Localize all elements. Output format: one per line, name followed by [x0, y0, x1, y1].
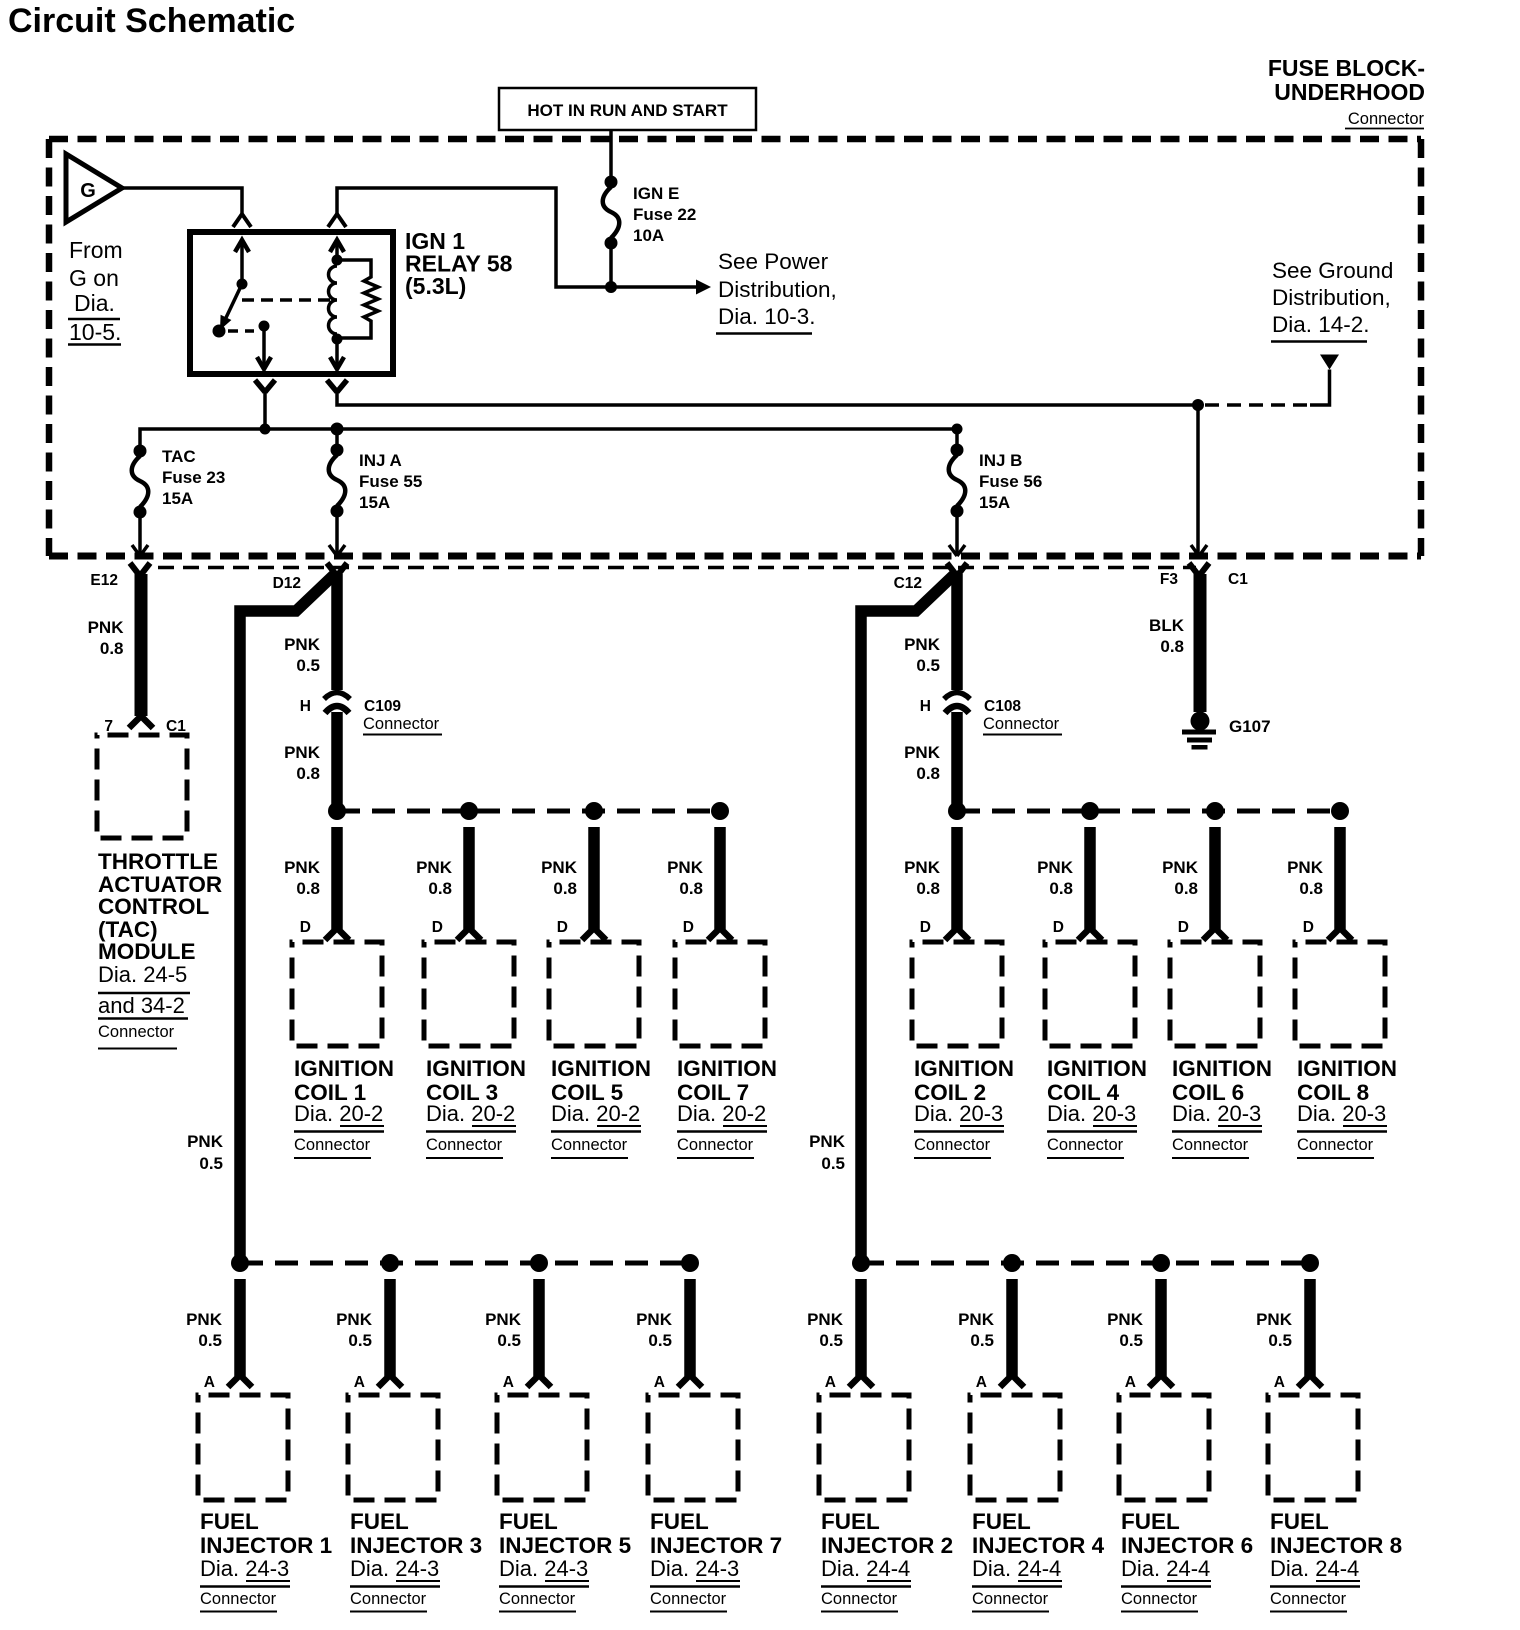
svg-text:PNK: PNK: [284, 635, 321, 654]
svg-text:A: A: [204, 1374, 215, 1391]
svg-text:PNK: PNK: [904, 635, 941, 654]
svg-text:Distribution,: Distribution,: [718, 277, 837, 302]
svg-text:PNK: PNK: [485, 1310, 522, 1329]
svg-text:15A: 15A: [979, 493, 1010, 512]
svg-text:PNK: PNK: [284, 858, 321, 877]
svg-text:Dia. 20-3: Dia. 20-3: [914, 1101, 1003, 1126]
svg-text:0.8: 0.8: [1160, 637, 1184, 656]
svg-text:D: D: [1053, 919, 1064, 936]
svg-text:Dia. 20-3: Dia. 20-3: [1172, 1101, 1261, 1126]
svg-text:IGNITION: IGNITION: [294, 1056, 394, 1081]
svg-text:Distribution,: Distribution,: [1272, 285, 1391, 310]
svg-text:Connector: Connector: [650, 1590, 727, 1608]
svg-text:10-5.: 10-5.: [69, 319, 121, 345]
svg-text:Dia.: Dia.: [74, 290, 115, 316]
svg-text:See Ground: See Ground: [1272, 258, 1393, 283]
svg-text:PNK: PNK: [1162, 858, 1199, 877]
svg-text:0.8: 0.8: [916, 764, 940, 783]
svg-text:INJECTOR 6: INJECTOR 6: [1121, 1533, 1253, 1558]
svg-text:D: D: [557, 919, 568, 936]
svg-text:Connector: Connector: [972, 1590, 1049, 1608]
svg-text:FUEL: FUEL: [499, 1509, 558, 1534]
svg-text:0.5: 0.5: [1268, 1331, 1292, 1350]
svg-text:Dia. 20-2: Dia. 20-2: [294, 1101, 383, 1126]
svg-text:0.8: 0.8: [100, 639, 124, 658]
svg-text:Connector: Connector: [1297, 1136, 1374, 1154]
svg-text:C108: C108: [984, 698, 1021, 715]
svg-text:0.5: 0.5: [296, 656, 320, 675]
svg-text:PNK: PNK: [1107, 1310, 1144, 1329]
svg-text:Dia. 24-3: Dia. 24-3: [499, 1556, 588, 1581]
svg-text:Connector: Connector: [821, 1590, 898, 1608]
svg-text:Connector: Connector: [499, 1590, 576, 1608]
svg-text:and 34-2: and 34-2: [98, 993, 185, 1018]
svg-text:D: D: [1303, 919, 1314, 936]
svg-text:IGNITION: IGNITION: [1172, 1056, 1272, 1081]
svg-text:PNK: PNK: [958, 1310, 995, 1329]
svg-text:INJECTOR 8: INJECTOR 8: [1270, 1533, 1402, 1558]
svg-text:FUEL: FUEL: [200, 1509, 259, 1534]
svg-text:FUEL: FUEL: [1121, 1509, 1180, 1534]
svg-text:Dia. 24-3: Dia. 24-3: [200, 1556, 289, 1581]
svg-text:PNK: PNK: [1037, 858, 1074, 877]
svg-text:PNK: PNK: [541, 858, 578, 877]
svg-text:PNK: PNK: [416, 858, 453, 877]
svg-text:Connector: Connector: [914, 1136, 991, 1154]
svg-text:D: D: [920, 919, 931, 936]
svg-text:A: A: [354, 1374, 365, 1391]
svg-text:Fuse 55: Fuse 55: [359, 472, 422, 491]
svg-text:INJECTOR 5: INJECTOR 5: [499, 1533, 631, 1558]
svg-text:0.5: 0.5: [916, 656, 940, 675]
svg-text:Dia. 20-2: Dia. 20-2: [426, 1101, 515, 1126]
svg-text:UNDERHOOD: UNDERHOOD: [1274, 79, 1425, 105]
svg-text:0.8: 0.8: [428, 879, 452, 898]
svg-text:CONTROL: CONTROL: [98, 894, 209, 919]
svg-text:0.5: 0.5: [497, 1331, 521, 1350]
svg-text:Dia. 24-3: Dia. 24-3: [650, 1556, 739, 1581]
svg-text:Dia. 24-4: Dia. 24-4: [1270, 1556, 1359, 1581]
svg-text:0.8: 0.8: [679, 879, 703, 898]
svg-text:Dia. 24-4: Dia. 24-4: [821, 1556, 910, 1581]
svg-text:D: D: [1178, 919, 1189, 936]
svg-text:IGNITION: IGNITION: [1047, 1056, 1147, 1081]
svg-text:15A: 15A: [359, 493, 390, 512]
svg-text:FUEL: FUEL: [350, 1509, 409, 1534]
svg-text:Connector: Connector: [426, 1136, 503, 1154]
svg-text:Connector: Connector: [98, 1023, 175, 1041]
svg-text:D: D: [683, 919, 694, 936]
svg-text:From: From: [69, 237, 123, 263]
svg-text:F3: F3: [1160, 571, 1178, 588]
svg-text:Dia. 24-5: Dia. 24-5: [98, 962, 187, 987]
svg-text:G: G: [80, 180, 96, 202]
svg-text:0.8: 0.8: [1174, 879, 1198, 898]
svg-text:C1: C1: [1228, 571, 1248, 588]
svg-text:0.5: 0.5: [821, 1154, 845, 1173]
svg-text:PNK: PNK: [336, 1310, 373, 1329]
svg-text:Connector: Connector: [983, 715, 1060, 733]
svg-text:D: D: [432, 919, 443, 936]
svg-text:IGN E: IGN E: [633, 184, 679, 203]
svg-text:PNK: PNK: [904, 858, 941, 877]
svg-text:(5.3L): (5.3L): [405, 273, 466, 299]
svg-text:IGNITION: IGNITION: [551, 1056, 651, 1081]
svg-text:See Power: See Power: [718, 249, 829, 274]
svg-text:0.5: 0.5: [1119, 1331, 1143, 1350]
svg-text:IGNITION: IGNITION: [677, 1056, 777, 1081]
svg-text:0.8: 0.8: [1299, 879, 1323, 898]
svg-text:Fuse 56: Fuse 56: [979, 472, 1042, 491]
svg-text:Dia. 24-4: Dia. 24-4: [1121, 1556, 1210, 1581]
svg-text:Connector: Connector: [350, 1590, 427, 1608]
svg-text:PNK: PNK: [1287, 858, 1324, 877]
svg-text:0.8: 0.8: [916, 879, 940, 898]
svg-text:E12: E12: [90, 572, 118, 589]
svg-text:7: 7: [104, 718, 113, 735]
svg-text:PNK: PNK: [807, 1310, 844, 1329]
svg-text:Connector: Connector: [1348, 110, 1425, 128]
svg-text:FUEL: FUEL: [1270, 1509, 1329, 1534]
svg-text:PNK: PNK: [1256, 1310, 1293, 1329]
svg-text:INJECTOR 4: INJECTOR 4: [972, 1533, 1105, 1558]
svg-text:IGNITION: IGNITION: [914, 1056, 1014, 1081]
svg-text:Dia. 20-3: Dia. 20-3: [1047, 1101, 1136, 1126]
svg-text:0.8: 0.8: [296, 764, 320, 783]
svg-text:Circuit Schematic: Circuit Schematic: [8, 2, 295, 40]
svg-text:0.8: 0.8: [1049, 879, 1073, 898]
svg-text:C1: C1: [166, 718, 186, 735]
svg-text:INJECTOR 3: INJECTOR 3: [350, 1533, 482, 1558]
svg-text:0.5: 0.5: [198, 1331, 222, 1350]
svg-text:C109: C109: [364, 698, 401, 715]
svg-text:TAC: TAC: [162, 447, 196, 466]
svg-text:A: A: [1274, 1374, 1285, 1391]
svg-text:Dia. 20-2: Dia. 20-2: [677, 1101, 766, 1126]
svg-text:Connector: Connector: [294, 1136, 371, 1154]
svg-text:PNK: PNK: [667, 858, 704, 877]
svg-text:0.5: 0.5: [819, 1331, 843, 1350]
svg-text:0.5: 0.5: [970, 1331, 994, 1350]
svg-text:Connector: Connector: [1121, 1590, 1198, 1608]
svg-text:A: A: [1125, 1374, 1136, 1391]
svg-text:Dia. 20-2: Dia. 20-2: [551, 1101, 640, 1126]
svg-text:0.5: 0.5: [648, 1331, 672, 1350]
svg-text:IGNITION: IGNITION: [1297, 1056, 1397, 1081]
svg-text:FUSE BLOCK-: FUSE BLOCK-: [1268, 55, 1425, 81]
svg-text:D: D: [300, 919, 311, 936]
svg-text:Dia. 14-2.: Dia. 14-2.: [1272, 312, 1370, 337]
svg-text:0.8: 0.8: [553, 879, 577, 898]
svg-text:INJECTOR 1: INJECTOR 1: [200, 1533, 332, 1558]
svg-text:Dia. 10-3.: Dia. 10-3.: [718, 304, 816, 329]
svg-text:Dia. 24-3: Dia. 24-3: [350, 1556, 439, 1581]
svg-text:INJECTOR 7: INJECTOR 7: [650, 1533, 782, 1558]
svg-text:Connector: Connector: [363, 715, 440, 733]
svg-text:PNK: PNK: [187, 1132, 224, 1151]
svg-text:A: A: [825, 1374, 836, 1391]
svg-text:0.8: 0.8: [296, 879, 320, 898]
svg-text:C12: C12: [894, 575, 922, 592]
svg-text:A: A: [503, 1374, 514, 1391]
svg-text:PNK: PNK: [904, 743, 941, 762]
svg-text:0.5: 0.5: [348, 1331, 372, 1350]
svg-text:Connector: Connector: [551, 1136, 628, 1154]
svg-text:PNK: PNK: [88, 618, 125, 637]
svg-text:H: H: [920, 698, 931, 715]
svg-text:INJECTOR 2: INJECTOR 2: [821, 1533, 953, 1558]
svg-text:Fuse 22: Fuse 22: [633, 205, 696, 224]
svg-text:0.5: 0.5: [199, 1154, 223, 1173]
svg-text:PNK: PNK: [636, 1310, 673, 1329]
svg-text:A: A: [654, 1374, 665, 1391]
svg-text:H: H: [300, 698, 311, 715]
svg-text:FUEL: FUEL: [650, 1509, 709, 1534]
svg-text:IGNITION: IGNITION: [426, 1056, 526, 1081]
svg-text:BLK: BLK: [1149, 616, 1185, 635]
svg-text:INJ B: INJ B: [979, 451, 1022, 470]
svg-text:D12: D12: [273, 575, 301, 592]
svg-text:MODULE: MODULE: [98, 939, 196, 964]
svg-text:Connector: Connector: [200, 1590, 277, 1608]
svg-text:15A: 15A: [162, 489, 193, 508]
svg-text:HOT IN RUN AND START: HOT IN RUN AND START: [527, 101, 728, 120]
svg-text:Dia. 24-4: Dia. 24-4: [972, 1556, 1061, 1581]
svg-text:Fuse 23: Fuse 23: [162, 468, 225, 487]
svg-text:A: A: [976, 1374, 987, 1391]
svg-text:10A: 10A: [633, 226, 664, 245]
svg-text:PNK: PNK: [186, 1310, 223, 1329]
svg-text:Connector: Connector: [1172, 1136, 1249, 1154]
svg-text:PNK: PNK: [809, 1132, 846, 1151]
svg-text:FUEL: FUEL: [821, 1509, 880, 1534]
svg-text:G107: G107: [1229, 717, 1271, 736]
svg-text:FUEL: FUEL: [972, 1509, 1031, 1534]
svg-text:Connector: Connector: [1047, 1136, 1124, 1154]
svg-text:G on: G on: [69, 265, 119, 291]
svg-text:Connector: Connector: [1270, 1590, 1347, 1608]
svg-text:Connector: Connector: [677, 1136, 754, 1154]
svg-text:PNK: PNK: [284, 743, 321, 762]
svg-text:INJ A: INJ A: [359, 451, 402, 470]
svg-text:Dia. 20-3: Dia. 20-3: [1297, 1101, 1386, 1126]
svg-text:THROTTLE: THROTTLE: [98, 849, 218, 874]
